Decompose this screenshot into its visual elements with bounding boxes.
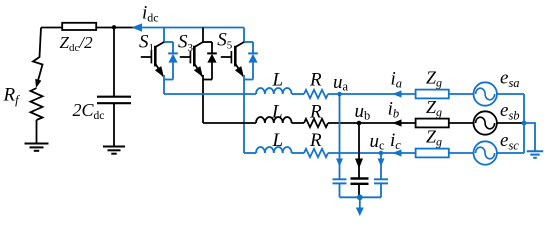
svg-text:ic: ic	[390, 130, 401, 152]
wire right bus vertical (blue)	[523, 94, 525, 153]
svg-text:ub: ub	[355, 101, 371, 123]
wire source a to right bus	[496, 93, 524, 95]
wire uc branch down (blue)	[380, 153, 382, 179]
wire node to idc arrow (black)	[114, 27, 136, 29]
svg-text:idc: idc	[142, 3, 159, 25]
capacitor Ca	[333, 179, 347, 183]
arrow ib (black)	[393, 119, 402, 126]
ground (Rf)	[25, 144, 49, 151]
svg-text:Zg: Zg	[426, 97, 442, 119]
wire Zg to source c	[449, 152, 474, 154]
wire leg3 drop (blue)	[243, 28, 245, 43]
sine glyph esb	[476, 117, 495, 129]
capacitor Cb	[351, 179, 369, 184]
svg-text:L: L	[272, 130, 284, 151]
transistor S5 (IGBT)	[221, 42, 244, 76]
svg-text:ib: ib	[388, 98, 400, 120]
wire leg2 down to phase b	[202, 75, 204, 123]
arrow ic (blue)	[393, 149, 402, 156]
svg-text:S3: S3	[178, 32, 194, 54]
resistor Zdc/2 box	[62, 23, 96, 30]
ground (2Cdc)	[103, 147, 125, 154]
wire leg1 top T to diode	[164, 41, 173, 43]
svg-text:ia: ia	[391, 69, 403, 91]
svg-text:Rf: Rf	[3, 85, 21, 108]
svg-text:R: R	[309, 130, 322, 151]
svg-text:S5: S5	[217, 30, 233, 52]
inductor L phase a	[256, 88, 292, 94]
wire Ca to bottom bus	[339, 183, 341, 197]
wire Rf slant with arrow	[33, 28, 43, 81]
wire L to R phase a	[292, 93, 304, 95]
diode D3 (black)	[207, 42, 217, 80]
wire leg1 down to phase a	[163, 75, 165, 94]
wire phase a from leg1 to L (blue)	[164, 93, 256, 95]
node bottom bus dot	[357, 194, 363, 200]
wire top-left horizontal to Zdc/2	[41, 27, 62, 29]
arrow ua branch	[336, 159, 343, 167]
arrow uc branch	[378, 159, 385, 167]
wire dc rail (blue)	[141, 27, 244, 29]
node junction dot dc link	[112, 25, 116, 29]
source esc circle	[474, 141, 497, 164]
wire bottom stub	[359, 197, 361, 209]
diode D5 (blue)	[248, 42, 258, 80]
sine glyph esa	[476, 88, 495, 100]
impedance Zg box phase c	[416, 149, 449, 158]
transistor S1 (IGBT)	[141, 42, 164, 76]
wire leg3 down to phase c	[243, 75, 245, 153]
wire phase c from leg3 to L (blue)	[244, 152, 256, 154]
resistor R phase c	[304, 149, 328, 157]
wire phase a node ua to Zg (blue)	[328, 93, 416, 95]
transistor S3 (IGBT)	[180, 42, 203, 76]
source esb circle	[474, 111, 497, 134]
resistor R phase a	[304, 90, 328, 98]
impedance Zg box phase b	[416, 119, 449, 128]
node uc dot	[379, 151, 384, 156]
node ua dot	[337, 92, 342, 97]
wire leg1 bottom T	[164, 79, 173, 81]
wire phase c node uc to Zg (blue)	[328, 152, 416, 154]
svg-text:L: L	[271, 102, 283, 123]
wire Cb to bottom bus	[358, 184, 360, 198]
wire leg2 bottom T	[203, 79, 212, 81]
wire source c to right bus	[496, 152, 524, 154]
sine glyph esc	[476, 147, 495, 159]
node ub dot	[357, 121, 362, 126]
wire L to R phase b	[292, 122, 304, 124]
wire capacitor bottom bus (blue)	[340, 196, 382, 198]
wire leg3 bottom T	[244, 79, 253, 81]
wire Zdc/2 to node	[97, 27, 114, 29]
ground (right bus)	[527, 151, 543, 158]
wire Zg to source b	[449, 122, 474, 124]
svg-text:ua: ua	[333, 72, 349, 94]
wire phase b from leg2 to L (black)	[203, 122, 256, 124]
wire right bus to ground	[524, 123, 535, 151]
arrow idc (blue, pointing left)	[132, 23, 143, 31]
svg-text:Zdc/2: Zdc/2	[60, 33, 94, 54]
capacitor Cc	[374, 179, 388, 183]
wire 2Cdc to ground	[113, 103, 115, 146]
svg-text:Zg: Zg	[426, 68, 442, 90]
resistor Rf zigzag	[31, 88, 43, 120]
wire leg2 top T to diode	[203, 41, 212, 43]
inductor L phase b	[256, 117, 292, 123]
wire Rf to ground	[36, 120, 38, 143]
svg-text:esc: esc	[500, 130, 519, 153]
arrow bottom stub (neutral)	[356, 208, 364, 217]
wire ub branch down (black)	[358, 123, 360, 178]
wire source b to right bus	[496, 122, 524, 124]
svg-text:esa: esa	[500, 68, 520, 91]
svg-text:S1: S1	[139, 32, 154, 54]
resistor R phase b	[304, 119, 328, 127]
wire node down to 2Cdc	[113, 28, 115, 97]
svg-text:L: L	[272, 70, 284, 91]
inductor L phase c	[256, 147, 292, 153]
arrow ub branch	[355, 159, 363, 169]
wire leg3 top T to diode	[244, 41, 253, 43]
svg-text:R: R	[309, 70, 322, 91]
wire L to R phase c	[292, 152, 304, 154]
wire leg1 drop (blue)	[163, 28, 165, 43]
wire Cc to bottom bus	[380, 183, 382, 197]
impedance Zg box phase a	[416, 90, 449, 99]
wire Zg to source a	[449, 93, 474, 95]
svg-text:Zg: Zg	[426, 127, 442, 149]
capacitor 2Cdc	[97, 97, 131, 104]
svg-text:esb: esb	[500, 100, 520, 123]
wire phase b node ub to Zg (black)	[328, 122, 416, 124]
node right bus dot	[522, 121, 527, 126]
source esa circle	[474, 82, 497, 105]
wire leg2 drop (black)	[202, 28, 204, 43]
diode D1 (blue)	[168, 42, 178, 80]
arrow ia (blue)	[393, 90, 402, 97]
wire ua branch down (blue)	[339, 94, 341, 179]
svg-text:R: R	[309, 102, 322, 123]
svg-text:uc: uc	[370, 131, 386, 153]
